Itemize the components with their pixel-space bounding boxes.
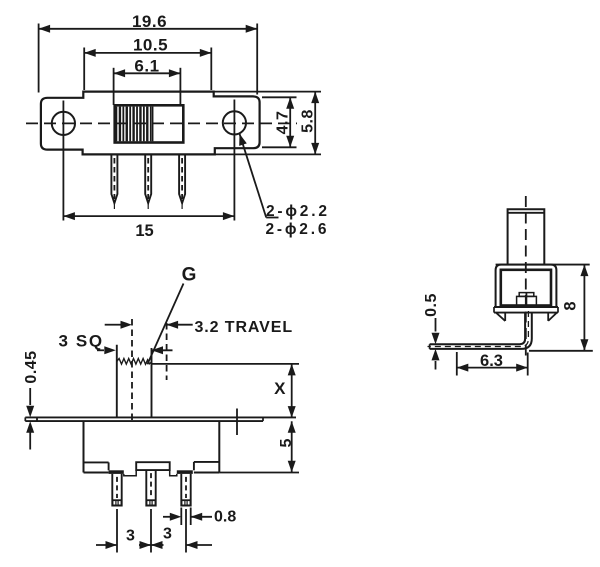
dimension 3.2 TRAVEL arrows	[105, 321, 193, 329]
front view: pin 3 shoulder bar	[177, 470, 193, 474]
dimension 19.6 label	[132, 12, 167, 31]
front view: pin 1	[112, 474, 121, 506]
svg-text:4.7: 4.7	[275, 111, 292, 135]
dimension 10.5 label	[133, 36, 168, 55]
side view: body outline	[496, 265, 557, 307]
dimension 8 bottom extension line	[529, 350, 593, 352]
svg-text:0.5: 0.5	[423, 293, 440, 317]
dimension 6.3 label	[480, 352, 503, 370]
svg-text:G: G	[182, 265, 197, 286]
top view: left hole vertical centerline / 15 extension line	[62, 101, 64, 221]
svg-text:8: 8	[562, 301, 580, 310]
dimension 4.7 extension lines	[262, 97, 297, 147]
top view: terminal pin 3	[179, 155, 185, 209]
svg-text:6.3: 6.3	[480, 352, 503, 370]
top view: right mounting hole	[223, 111, 246, 134]
dimension 6.3 extension lines	[457, 352, 528, 376]
front view: travel position dashed line left	[131, 319, 133, 421]
dimension 3-3 extension lines	[117, 509, 186, 553]
front view: body bottom right foot	[194, 462, 219, 473]
svg-text:19.6: 19.6	[132, 12, 167, 31]
dimension 6.3 line and arrows	[457, 364, 528, 372]
dimension 3.2 TRAVEL label	[195, 319, 294, 336]
dimension 5 label	[278, 438, 295, 447]
svg-text:3: 3	[163, 526, 172, 543]
dimension 5 line and arrows	[288, 421, 296, 472]
leader line to mounting hole	[239, 134, 278, 218]
front view: switch body outline	[84, 421, 220, 472]
svg-text:6.1: 6.1	[134, 57, 159, 76]
front view: center bottom block	[136, 462, 170, 470]
side view: actuator stem	[508, 209, 545, 264]
svg-text:10.5: 10.5	[133, 36, 168, 55]
svg-text:5.8: 5.8	[300, 109, 317, 133]
dimension 6.1 extension lines	[114, 68, 181, 105]
hole callout label 2-phi2.2	[266, 203, 330, 220]
dimension 0.8 label	[214, 509, 236, 526]
top view: slider knob outline	[115, 105, 184, 142]
side view: body top edge / 8 extension line	[496, 264, 590, 266]
svg-text:3: 3	[126, 528, 135, 545]
front view: pin 2	[146, 470, 155, 505]
dimension 3 label (right)	[163, 526, 172, 543]
svg-text:X: X	[274, 379, 286, 398]
dimension 10.5 line and arrows	[84, 49, 211, 57]
front view: actuator knob (broken)	[117, 345, 152, 418]
top view: knob knurled (hatched) section	[117, 107, 153, 142]
front view: knob-top reference line	[152, 363, 300, 365]
dimension 0.5 label	[423, 293, 440, 317]
dimension 5.8 line and arrows	[311, 92, 319, 155]
dimension 6.1 label	[134, 57, 159, 76]
top view: switch frame outline	[41, 92, 260, 155]
side view: right bent tab	[548, 313, 557, 321]
svg-text:5: 5	[278, 438, 295, 447]
side view: left bent tab	[496, 313, 505, 321]
dimension 19.6 line and arrows	[39, 25, 258, 33]
side view: base flange	[494, 307, 558, 313]
dimension 0.45 label	[23, 350, 40, 383]
front view: mounting plate	[25, 417, 296, 421]
dimension 3-3 line and arrows	[96, 541, 212, 549]
dimension 0.5 arrows	[432, 318, 440, 370]
top view: left mounting hole	[52, 112, 75, 135]
dimension 10.5 extension lines	[84, 48, 211, 91]
dimension 6.1 line and arrows	[114, 69, 181, 77]
front view: bottom lip right	[170, 470, 177, 476]
dimension 15 label	[135, 222, 153, 240]
dimension 5 bottom extension line	[219, 472, 299, 474]
svg-text:0.45: 0.45	[23, 350, 40, 383]
label G	[182, 265, 197, 286]
dimension 0.8 arrows	[163, 508, 212, 526]
svg-text:2-ϕ2.6: 2-ϕ2.6	[266, 221, 330, 238]
dimension 5.8 extension lines	[214, 92, 321, 155]
top view: right hole vertical centerline / 15 extension line	[233, 100, 235, 221]
dimension X line and arrows	[288, 364, 296, 418]
front view: mounting hole centerline tick	[236, 409, 238, 436]
dimension X label	[274, 379, 286, 398]
side view: pin dashed centerline	[428, 311, 529, 347]
front view: bottom lip left	[124, 470, 136, 476]
side view: bent terminal pin	[430, 313, 532, 349]
front view: pin 3	[181, 474, 190, 506]
hole callout label 2-phi2.6	[266, 221, 330, 238]
dimension 3 label (left)	[126, 528, 135, 545]
svg-text:2-ϕ2.2: 2-ϕ2.2	[266, 203, 330, 220]
svg-text:0.8: 0.8	[214, 509, 236, 526]
svg-text:3 SQ: 3 SQ	[59, 332, 104, 351]
front view: body bottom left foot	[84, 462, 109, 472]
side view: inner frame	[501, 270, 551, 306]
top view: terminal pin 1	[111, 155, 117, 209]
dimension 0.45 arrows	[26, 388, 34, 450]
dimension 8 line and arrows	[580, 265, 588, 351]
dimension 3 SQ arrows	[97, 346, 173, 354]
label 3 SQ	[59, 332, 104, 351]
front view: travel position dashed line right	[166, 323, 168, 380]
side view: contact block	[517, 293, 537, 306]
top view: horizontal dashed centerline	[26, 122, 297, 124]
dimension 8 label	[562, 301, 580, 310]
dimension 4.7 label	[275, 111, 292, 135]
top view: terminal pin 2	[145, 155, 151, 209]
dimension 19.6 extension lines	[39, 24, 258, 95]
dimension 15 line and arrows	[63, 212, 234, 220]
dimension 4.7 line and arrows	[286, 97, 294, 147]
leader line from G to knob	[147, 284, 183, 365]
front view: pin 1 shoulder bar	[109, 470, 124, 474]
svg-text:3.2 TRAVEL: 3.2 TRAVEL	[195, 319, 294, 336]
svg-text:15: 15	[135, 222, 153, 240]
side view: vertical dashed centerline	[525, 196, 527, 357]
dimension 5.8 label	[300, 109, 317, 133]
